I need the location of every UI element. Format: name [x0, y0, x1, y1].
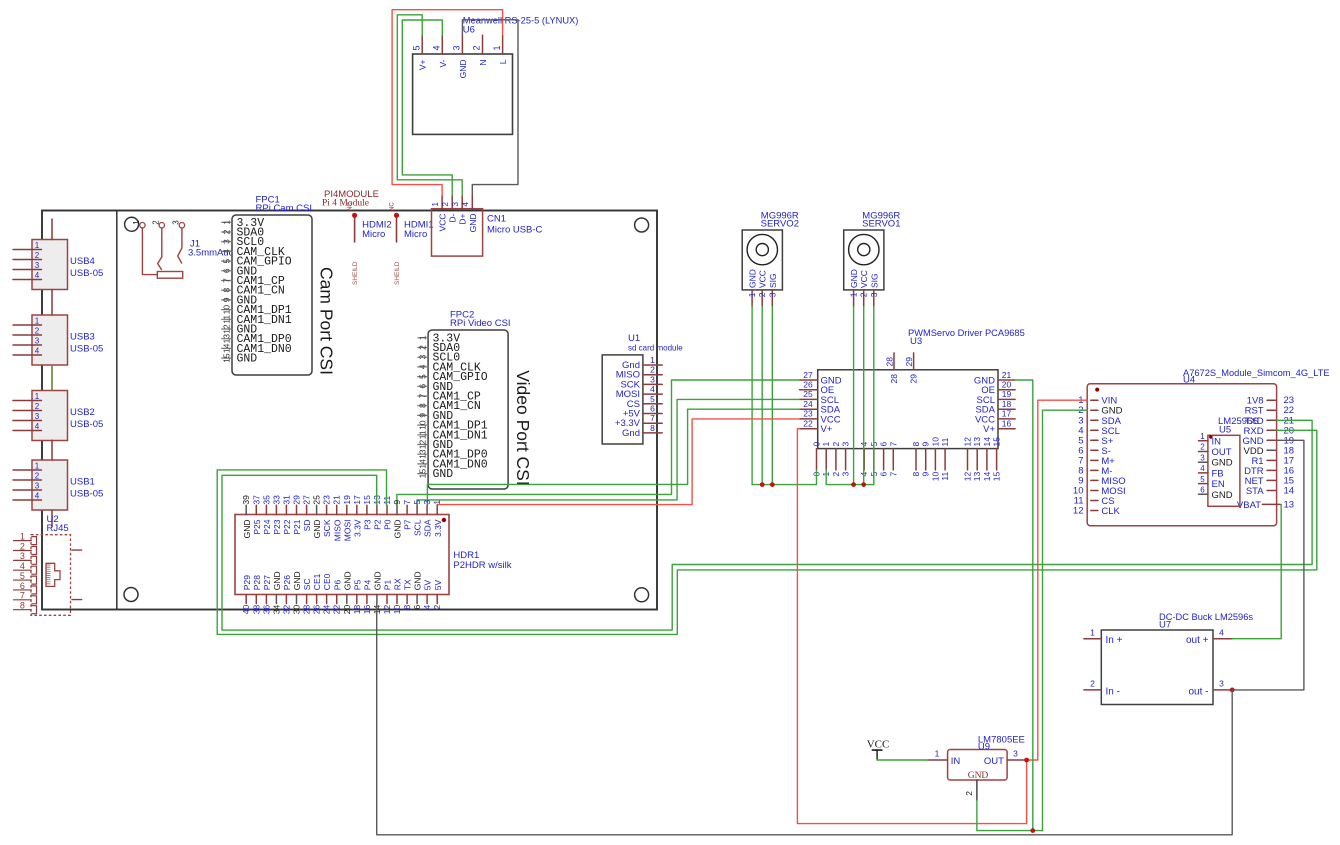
wire HDR1 pin14 GND to U7 out- ground (black) — [377, 604, 1232, 835]
U1 pin 5 CS — [627, 394, 662, 410]
HDR1 top pin 15 P3 — [362, 495, 373, 530]
svg-text:SCK: SCK — [322, 519, 332, 537]
U3 bottom pin 0 — [812, 442, 822, 477]
svg-text:18: 18 — [352, 605, 362, 615]
svg-text:2: 2 — [1090, 679, 1095, 689]
svg-text:2: 2 — [757, 292, 767, 297]
junction servo2 SIG — [770, 482, 775, 487]
servo SERVO1 MG996R body — [844, 230, 884, 290]
U1 pin 1 Gnd — [622, 355, 662, 371]
RJ45 pin 6 — [14, 581, 37, 594]
U3 right pin 18 SDA — [975, 399, 1015, 416]
power symbol VCC — [867, 739, 890, 761]
wire U4 GND to ground bus (green) — [1043, 410, 1088, 830]
svg-text:5: 5 — [417, 374, 427, 379]
svg-text:1: 1 — [431, 202, 440, 207]
HDR1 bottom pin 34 GND — [271, 571, 282, 614]
svg-text:28: 28 — [302, 605, 312, 615]
HDR1 top pin 9 GND — [392, 500, 403, 539]
svg-text:29: 29 — [292, 495, 302, 505]
svg-text:VCC: VCC — [438, 214, 448, 232]
svg-text:USB1: USB1 — [70, 477, 95, 488]
header HDR1 P2HDR body — [235, 515, 449, 595]
svg-text:33: 33 — [271, 495, 281, 505]
svg-text:5V: 5V — [423, 579, 433, 590]
U9 labels — [978, 735, 1025, 753]
svg-text:7: 7 — [888, 472, 898, 477]
svg-text:CN1: CN1 — [487, 214, 506, 225]
svg-text:24: 24 — [322, 605, 332, 615]
U6 pin 4 V- — [432, 35, 448, 67]
svg-text:2: 2 — [441, 202, 450, 207]
svg-text:P1: P1 — [383, 580, 393, 591]
FPC2 pin 9 GND — [417, 410, 453, 423]
svg-text:32: 32 — [281, 605, 291, 615]
svg-text:RPi Cam CSI: RPi Cam CSI — [256, 203, 312, 214]
FPC1 pin 9 GND — [221, 294, 257, 307]
wire SERVO2 GND down — [751, 307, 753, 485]
svg-text:GND: GND — [968, 771, 989, 781]
SERVO1 pin 3 SIG — [869, 273, 880, 306]
svg-text:4: 4 — [650, 384, 655, 394]
U7 pin 1 In+ — [1084, 628, 1123, 647]
svg-text:1: 1 — [935, 749, 940, 759]
svg-text:SHEILD: SHEILD — [394, 261, 401, 285]
HDR1 bottom pin 28 SC — [302, 578, 313, 614]
driver U3 PCA9685 body — [818, 370, 998, 449]
svg-text:GND: GND — [272, 571, 282, 590]
U3 bottom pin 9 — [921, 442, 931, 477]
U4 pin 13 VBAT — [1237, 499, 1294, 510]
svg-text:34: 34 — [271, 605, 281, 615]
svg-text:GND: GND — [433, 468, 454, 481]
svg-text:2: 2 — [472, 45, 482, 50]
U4 right pin 23 1V8 — [1247, 395, 1294, 407]
HDMI2 micro connector pin — [348, 202, 358, 242]
svg-text:Meanwell RS-25-5 (LYNUX): Meanwell RS-25-5 (LYNUX) — [463, 16, 579, 26]
U4 left pin 1 VIN — [1078, 395, 1117, 407]
U4 labels — [1183, 368, 1330, 386]
HDR1 top pin 35 P24 — [261, 495, 272, 535]
svg-text:9: 9 — [392, 500, 402, 505]
FPC1 pin 11 CAM1_DN1 — [221, 314, 292, 327]
U1 labels — [628, 333, 683, 353]
svg-text:10: 10 — [930, 437, 940, 447]
svg-text:MOSI: MOSI — [342, 520, 352, 542]
HDR1 bottom pin 10 RX — [392, 578, 403, 614]
wire HDR1 pin1 3.3V to U3 VCC (red) — [437, 419, 799, 505]
U3 bottom pin 12 — [963, 437, 973, 481]
svg-text:15: 15 — [992, 472, 1002, 482]
USB connector USB4 (USB-05) — [13, 240, 103, 290]
svg-text:USB4: USB4 — [70, 256, 95, 267]
svg-text:U1: U1 — [628, 333, 640, 344]
power supply U6 Meanwell RS-25-5 body — [413, 54, 513, 134]
CN1 pin 4 GND — [461, 196, 478, 233]
svg-text:8: 8 — [402, 605, 412, 610]
FPC2 pin 13 CAM1_DP0 — [417, 449, 487, 462]
HDR1 bottom pin 16 P4 — [362, 580, 373, 615]
svg-text:3: 3 — [422, 500, 432, 505]
FPC1 reference labels — [256, 195, 312, 215]
svg-text:U7: U7 — [1159, 620, 1171, 631]
HDR1 top pin 25 GND — [312, 495, 323, 539]
svg-text:13: 13 — [1284, 499, 1295, 510]
CN1 pin 1 VCC — [431, 196, 448, 232]
SERVO1 pin 2 VCC — [859, 270, 870, 306]
U4 right pin 17 R1 — [1251, 455, 1294, 467]
svg-text:28: 28 — [885, 357, 895, 367]
U3 bottom pin 3 — [841, 442, 851, 477]
CN1 labels — [487, 214, 543, 236]
FPC1 pin 14 CAM1_DN0 — [221, 343, 292, 356]
U4 left pin 7 M+ — [1078, 455, 1115, 467]
FPC2 pin 4 CAM_CLK — [417, 361, 481, 374]
svg-text:V-: V- — [438, 59, 448, 67]
svg-text:P26: P26 — [282, 575, 292, 590]
svg-text:27: 27 — [803, 370, 813, 380]
wire servo2 bus to U3 pin0 — [752, 470, 816, 485]
J1 pin 1 circle — [140, 223, 145, 228]
module U1 sd card body — [602, 355, 643, 444]
svg-text:22: 22 — [332, 605, 342, 615]
USB connector USB1 (USB-05) — [13, 460, 103, 510]
wire USB3 to USB2 (green segment) — [51, 366, 53, 391]
svg-text:SERVO1: SERVO1 — [862, 219, 900, 230]
svg-text:Pi 4 Module: Pi 4 Module — [322, 199, 369, 209]
svg-text:P28: P28 — [252, 575, 262, 590]
converter U7 DC-DC Buck LM2596s body — [1101, 630, 1213, 705]
svg-text:5: 5 — [411, 45, 421, 50]
svg-text:2: 2 — [859, 292, 869, 297]
svg-text:2: 2 — [35, 402, 40, 411]
svg-text:VCC: VCC — [758, 270, 768, 288]
U3 bottom pin 11 — [940, 437, 950, 480]
svg-text:GND: GND — [393, 520, 403, 539]
U9 pin 2 GND stub — [964, 780, 977, 800]
svg-text:2: 2 — [432, 605, 442, 610]
svg-text:2: 2 — [831, 442, 841, 447]
svg-text:VCC: VCC — [859, 270, 869, 288]
HDR1 bottom pin 36 P27 — [261, 575, 272, 614]
svg-text:26: 26 — [803, 380, 813, 390]
svg-text:22: 22 — [803, 419, 813, 429]
svg-text:1: 1 — [132, 220, 141, 225]
svg-text:15: 15 — [417, 469, 427, 479]
svg-text:GND: GND — [242, 520, 252, 539]
svg-text:3: 3 — [767, 292, 777, 297]
FPC2 pin 3 SCL0 — [417, 352, 460, 365]
U3 right pin 16 V+ — [983, 419, 1015, 436]
svg-text:P24: P24 — [262, 519, 272, 534]
HDR1 top pin 21 MISO — [332, 495, 343, 541]
U1 pin 8 Gnd — [622, 423, 662, 439]
svg-text:V+: V+ — [418, 59, 428, 70]
svg-text:13: 13 — [972, 437, 982, 447]
svg-text:10: 10 — [417, 420, 427, 430]
wire U6 L to CN1 VCC (red) — [392, 10, 503, 196]
mount hole top-left — [125, 217, 139, 231]
svg-text:P25: P25 — [252, 519, 262, 534]
svg-text:CE0: CE0 — [322, 573, 332, 590]
U3 left pin 23 VCC — [800, 409, 841, 426]
FPC2 pin 7 CAM1_CP — [417, 391, 481, 404]
svg-text:29: 29 — [904, 357, 914, 367]
svg-text:17: 17 — [1002, 409, 1012, 419]
svg-text:14: 14 — [982, 437, 992, 447]
svg-text:7: 7 — [650, 413, 655, 423]
svg-text:OUT: OUT — [1212, 447, 1232, 458]
servo SERVO2 MG996R body — [742, 230, 782, 290]
svg-text:3: 3 — [841, 472, 851, 477]
svg-text:5: 5 — [412, 500, 422, 505]
FPC1 pin 5 CAM_GPIO — [221, 256, 292, 269]
svg-text:13: 13 — [221, 334, 231, 344]
svg-text:P3: P3 — [363, 519, 373, 530]
svg-text:2: 2 — [650, 365, 655, 375]
wire U7 out+ to U4 VBAT (green) — [1232, 504, 1281, 638]
svg-text:P21: P21 — [292, 519, 302, 534]
SERVO2 labels — [761, 210, 799, 229]
RJ45 pin 2 — [14, 541, 37, 554]
Pi 4 module board outline — [42, 211, 657, 610]
svg-text:SIG: SIG — [768, 273, 778, 288]
svg-text:8: 8 — [911, 442, 921, 447]
U3 bottom pin 8 — [911, 442, 921, 477]
U5 pin1 marker dot — [1209, 435, 1213, 439]
J1 pin 3 switch lever — [178, 228, 182, 264]
svg-text:DC-DC Buck LM2596s: DC-DC Buck LM2596s — [1159, 612, 1253, 622]
svg-text:3: 3 — [35, 482, 40, 491]
svg-text:1: 1 — [20, 531, 25, 541]
svg-text:19: 19 — [1002, 389, 1012, 399]
svg-text:5: 5 — [1200, 475, 1205, 484]
FPC1 pin 12 GND — [221, 324, 257, 337]
HDR1 bottom pin 20 GND — [342, 571, 353, 614]
U1 pin 2 MISO — [616, 365, 662, 381]
RJ45 pin 4 — [14, 561, 37, 574]
svg-text:D+: D+ — [458, 213, 468, 224]
svg-text:10: 10 — [221, 305, 231, 315]
svg-text:P7: P7 — [403, 519, 413, 530]
svg-text:1: 1 — [1200, 432, 1205, 441]
svg-text:1: 1 — [821, 442, 831, 447]
U4 right pin 21 TXD — [1245, 415, 1294, 427]
svg-text:Cam Port CSI: Cam Port CSI — [317, 267, 337, 375]
svg-text:MISO: MISO — [332, 519, 342, 541]
svg-text:40: 40 — [241, 605, 251, 615]
svg-text:SHEILD: SHEILD — [352, 261, 359, 285]
HDR1 bottom pin 6 GND — [412, 571, 423, 609]
svg-text:N: N — [478, 60, 488, 66]
U3 bottom pin 5 — [869, 442, 879, 477]
wire HDR1 P0 pin11 loop to U4 RXD (green) — [217, 430, 1317, 634]
svg-text:3: 3 — [417, 355, 427, 360]
SERVO1 pin 1 GND — [849, 269, 860, 306]
svg-text:GND: GND — [1212, 490, 1233, 501]
svg-text:1: 1 — [1090, 628, 1095, 638]
svg-text:36: 36 — [261, 605, 271, 615]
U3 top pin 28 — [885, 353, 900, 384]
svg-text:out +: out + — [1186, 635, 1209, 646]
svg-text:20: 20 — [1002, 380, 1012, 390]
FPC2 pin 1 3.3V — [417, 332, 460, 345]
svg-text:12: 12 — [963, 437, 973, 447]
svg-text:5: 5 — [650, 394, 655, 404]
svg-text:8: 8 — [417, 403, 427, 408]
U3 left pin 27 GND — [800, 370, 842, 387]
module U4 A7672S Simcom 4G LTE body — [1087, 384, 1276, 526]
svg-text:In +: In + — [1106, 635, 1123, 646]
svg-text:V+: V+ — [821, 424, 833, 435]
svg-text:V+: V+ — [983, 424, 995, 435]
svg-text:Video Port CSI: Video Port CSI — [513, 370, 533, 485]
FPC1 pin 10 CAM1_DP1 — [221, 304, 292, 317]
svg-text:RJ45: RJ45 — [47, 523, 69, 534]
svg-text:10: 10 — [930, 472, 940, 482]
svg-text:4: 4 — [221, 249, 231, 254]
U4 right pin 19 GND — [1242, 435, 1294, 447]
wire SERVO1 SIG down — [873, 307, 875, 485]
svg-text:4: 4 — [461, 202, 470, 207]
svg-text:USB3: USB3 — [70, 332, 95, 343]
HDR1 top pin 39 GND — [241, 495, 252, 539]
wire stub below USB1 — [51, 510, 53, 527]
svg-text:USB-05: USB-05 — [70, 489, 103, 500]
mount hole bottom-right — [635, 588, 649, 602]
svg-text:29: 29 — [909, 374, 919, 384]
HDMI1 micro connector pin — [390, 202, 400, 242]
wire U9 GND leg (green) — [977, 800, 1043, 830]
svg-text:SIG: SIG — [869, 273, 879, 288]
svg-text:15: 15 — [992, 437, 1002, 447]
svg-text:30: 30 — [292, 605, 302, 615]
HDMI1 labels — [404, 220, 434, 241]
svg-text:1: 1 — [747, 292, 757, 297]
U7 pin 2 In- — [1084, 679, 1120, 698]
U4 left pin 10 MOSI — [1073, 486, 1126, 498]
svg-text:20: 20 — [342, 605, 352, 615]
svg-text:4: 4 — [1219, 628, 1224, 638]
svg-text:39: 39 — [241, 495, 251, 505]
U4 left pin 11 CS — [1074, 496, 1115, 508]
svg-text:Micro: Micro — [362, 229, 385, 240]
svg-text:D-: D- — [448, 213, 458, 222]
svg-text:2: 2 — [35, 472, 40, 481]
svg-text:18: 18 — [1002, 399, 1012, 409]
U4 left pin 9 MISO — [1078, 475, 1125, 487]
U6 pin 5 V+ — [411, 35, 427, 70]
svg-text:38: 38 — [251, 605, 261, 615]
HDR1 top pin 1 3.3V — [432, 500, 443, 537]
wire U6 V+ to CN1 D+ (green) — [397, 15, 462, 196]
regulator U5 LM2596S body — [1208, 435, 1240, 506]
svg-text:7: 7 — [221, 278, 231, 283]
HDR1 bottom pin 12 P1 — [382, 580, 393, 615]
svg-text:2: 2 — [831, 472, 841, 477]
HDR1 bottom pin 18 P5 — [352, 580, 363, 615]
svg-text:1: 1 — [35, 392, 40, 401]
U7 pin 4 out+ — [1186, 628, 1232, 647]
U6 pin 3 GND — [452, 35, 468, 78]
svg-text:6: 6 — [221, 268, 231, 273]
svg-text:28: 28 — [889, 374, 899, 384]
HDR1 top pin 19 MOSI — [342, 495, 353, 541]
wire SERVO2 SIG down — [771, 307, 773, 485]
U4 right pin 15 NET — [1245, 475, 1294, 487]
svg-text:P6: P6 — [332, 580, 342, 591]
svg-text:26: 26 — [312, 605, 322, 615]
svg-text:TX: TX — [403, 579, 413, 590]
U4 right pin 20 RXD — [1244, 425, 1295, 437]
wire U3 V+ to U9 OUT (red) — [797, 429, 1026, 824]
svg-text:GND: GND — [292, 571, 302, 590]
wire VCC to U9 IN (green) — [877, 759, 928, 761]
svg-text:3: 3 — [35, 412, 40, 421]
U4 right pin 16 DTR — [1244, 465, 1294, 477]
svg-text:PWMServo Driver PCA9685: PWMServo Driver PCA9685 — [908, 328, 1025, 338]
HDR1 top pin 37 P25 — [251, 495, 262, 535]
junction servo1 GND — [851, 482, 856, 487]
FPC2 pin 12 GND — [417, 439, 453, 452]
svg-text:17: 17 — [352, 495, 362, 505]
svg-text:SERVO2: SERVO2 — [761, 219, 799, 230]
svg-text:24: 24 — [803, 399, 813, 409]
svg-text:USB-05: USB-05 — [70, 419, 103, 430]
svg-text:U3: U3 — [910, 336, 922, 347]
svg-text:GND: GND — [849, 269, 859, 288]
svg-text:6: 6 — [879, 472, 889, 477]
svg-text:2: 2 — [417, 345, 427, 350]
FPC2 pin 2 SDA0 — [417, 342, 460, 355]
connector FPC1 (RPi Cam CSI) body — [232, 215, 312, 375]
U3 bottom pin 1 — [821, 442, 831, 477]
svg-text:P2HDR w/silk: P2HDR w/silk — [453, 560, 511, 571]
svg-text:GND: GND — [413, 571, 423, 590]
U5 pin 5 EN — [1199, 475, 1225, 490]
RJ45 no-connect stub upper — [72, 549, 82, 551]
svg-text:37: 37 — [251, 495, 261, 505]
FPC1 pin 1 3.3V — [221, 217, 264, 230]
HDR1 bottom pin 22 P6 — [332, 580, 343, 615]
FPC2 pin 8 CAM1_CN — [417, 400, 480, 413]
svg-text:2: 2 — [1200, 443, 1205, 452]
svg-text:1: 1 — [35, 241, 40, 250]
junction ground bus — [1030, 828, 1035, 833]
CN1 pin 2 D- — [441, 196, 458, 223]
svg-text:21: 21 — [332, 495, 342, 505]
svg-text:15: 15 — [362, 495, 372, 505]
HDR1 bottom pin 2 5V — [432, 579, 443, 609]
svg-text:16: 16 — [362, 605, 372, 615]
svg-text:U9: U9 — [978, 741, 990, 752]
svg-text:8: 8 — [20, 601, 25, 611]
FPC2 pin 10 CAM1_DP1 — [417, 420, 487, 433]
svg-text:6: 6 — [1200, 486, 1205, 495]
svg-text:1: 1 — [35, 462, 40, 471]
HDR1 bottom pin 26 CE1 — [312, 573, 323, 614]
junction U9 OUT — [1024, 758, 1029, 763]
RJ45 pin 3 — [14, 551, 37, 564]
svg-text:14: 14 — [417, 459, 427, 469]
U5 pin 2 OUT — [1199, 443, 1232, 458]
svg-text:4: 4 — [35, 422, 40, 431]
svg-text:19: 19 — [342, 495, 352, 505]
wire HDR1 pin9 GND to U3 GND (green) — [397, 380, 800, 505]
FPC1 pin 4 CAM_CLK — [221, 246, 285, 259]
FPC2 pin 14 CAM1_DN0 — [417, 458, 487, 471]
junction servo1 VCC — [861, 482, 866, 487]
